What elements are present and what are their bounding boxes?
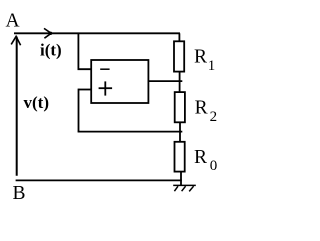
wire: top rail from node A to R1 bbox=[14, 32, 180, 34]
svg-text:i(t): i(t) bbox=[40, 41, 62, 60]
svg-text:B: B bbox=[13, 183, 26, 204]
wire: non-inverting input stub bbox=[79, 89, 92, 91]
svg-text:R: R bbox=[194, 47, 207, 68]
voltage arrow v(t) shaft bbox=[16, 37, 18, 176]
resistor R1 bbox=[174, 41, 184, 71]
wire: R0 down to ground bbox=[180, 172, 182, 186]
svg-text:0: 0 bbox=[210, 158, 218, 174]
wire: R2 to R0 bbox=[179, 122, 181, 142]
svg-text:A: A bbox=[6, 11, 20, 32]
current arrow i(t) on top rail bbox=[44, 28, 51, 38]
svg-text:v(t): v(t) bbox=[24, 93, 49, 112]
op-amp plus sign bbox=[99, 87, 113, 89]
svg-text:R: R bbox=[195, 98, 208, 119]
svg-text:1: 1 bbox=[208, 58, 216, 74]
wire: op-amp output to R1/R2 node bbox=[148, 80, 182, 82]
ground bbox=[173, 185, 196, 191]
wire: R1 to R2 bbox=[179, 72, 181, 93]
op-amp U1 body bbox=[91, 60, 148, 103]
wire: top rail down to R1 bbox=[178, 33, 180, 41]
wire: inverting input branch from top rail bbox=[78, 33, 91, 69]
svg-text:2: 2 bbox=[210, 109, 218, 125]
svg-text:R: R bbox=[194, 147, 207, 168]
wire: bottom rail from node B to ground junction bbox=[16, 179, 182, 181]
voltage arrowhead bbox=[11, 36, 20, 45]
wire: feedback horizontal to R2/R0 node bbox=[78, 131, 183, 133]
op-amp minus sign bbox=[100, 68, 109, 70]
wire: feedback vertical drop bbox=[78, 89, 80, 132]
resistor R2 bbox=[175, 92, 185, 122]
resistor R0 bbox=[175, 142, 185, 172]
